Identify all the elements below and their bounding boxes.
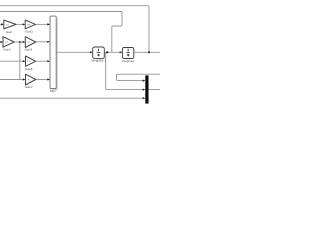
svg-text:-K-: -K- [27, 78, 31, 81]
svg-text:-K-: -K- [27, 41, 31, 44]
svg-text:1/w: 1/w [27, 23, 31, 26]
svg-text:1/L: 1/L [5, 41, 9, 44]
svg-text:Gain3: Gain3 [24, 48, 32, 52]
svg-text:Gain5: Gain5 [25, 67, 33, 71]
svg-text:Integrator: Integrator [122, 59, 134, 63]
svg-text:Mux: Mux [50, 89, 56, 93]
svg-text:s/2: s/2 [6, 23, 10, 26]
svg-text:Gain2: Gain2 [25, 30, 33, 34]
svg-text:Gain: Gain [6, 30, 12, 34]
svg-text:Gain4: Gain4 [25, 85, 33, 89]
svg-text:Integrator 1: Integrator 1 [91, 59, 106, 63]
svg-text:Gain1: Gain1 [3, 47, 11, 51]
